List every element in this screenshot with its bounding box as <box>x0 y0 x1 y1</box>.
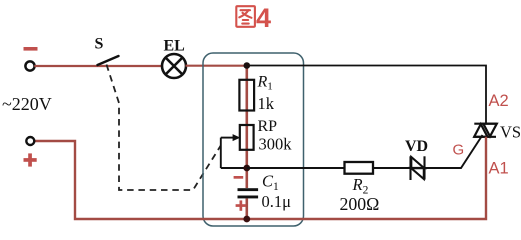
terminal top-left <box>25 61 34 70</box>
svg-text:VS: VS <box>500 123 521 142</box>
resistor R1 <box>239 80 254 111</box>
svg-text:4: 4 <box>256 3 271 33</box>
dashed mechanical linkage <box>107 65 221 191</box>
wire: gate row black <box>247 167 345 169</box>
wire: red from lamp to junction <box>186 65 247 67</box>
svg-text:S: S <box>95 36 104 53</box>
wire: black top from junction to right corner <box>247 66 486 124</box>
svg-text:EL: EL <box>164 38 185 55</box>
C1 plus sign <box>236 200 247 210</box>
svg-text:1k: 1k <box>258 94 275 113</box>
diac VD <box>411 156 425 180</box>
wire: red vertical main (R1, RP branch) <box>246 66 249 189</box>
terminal bottom-left <box>26 137 34 145</box>
node junction bottom <box>243 216 250 223</box>
wire: top red from terminal to lamp <box>34 65 162 67</box>
wire: red A1 down <box>34 137 486 219</box>
plus sign bottom-left <box>24 153 37 166</box>
potentiometer RP <box>240 125 254 150</box>
lamp EL <box>162 54 186 78</box>
svg-text:200Ω: 200Ω <box>340 194 380 214</box>
svg-text:0.1μ: 0.1μ <box>262 192 292 211</box>
svg-text:G: G <box>453 142 465 159</box>
svg-text:~220V: ~220V <box>2 94 52 114</box>
node junction top <box>244 62 251 69</box>
minus sign top-left <box>24 47 38 51</box>
switch S blade <box>98 56 119 65</box>
svg-text:300k: 300k <box>259 135 293 154</box>
svg-text:A1: A1 <box>489 160 509 178</box>
svg-text:A2: A2 <box>489 92 509 110</box>
triac VS <box>473 124 497 137</box>
svg-text:VD: VD <box>405 138 428 155</box>
svg-text:RP: RP <box>258 118 278 135</box>
RP wiper arrow <box>221 138 247 168</box>
C1 minus sign <box>234 176 244 179</box>
node junction RP/C1 <box>243 165 250 172</box>
title 图4 <box>236 6 255 27</box>
enclosure box <box>203 53 304 226</box>
resistor R2 <box>345 162 374 174</box>
capacitor C1 <box>238 188 259 191</box>
